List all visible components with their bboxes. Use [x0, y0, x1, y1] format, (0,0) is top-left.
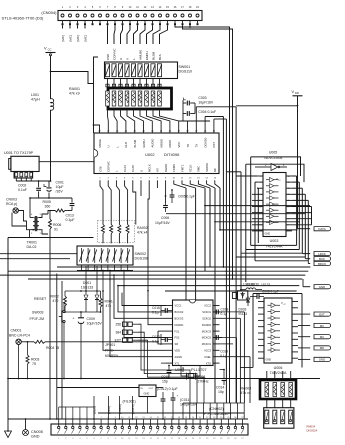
- svg-text:DIT4096: DIT4096: [164, 152, 180, 157]
- svg-text:10µF: 10µF: [56, 185, 64, 189]
- resistor array RA001 body: [106, 79, 172, 110]
- svg-text:C002: C002: [18, 184, 26, 188]
- svg-text:SR: SR: [175, 342, 179, 346]
- svg-text:FS1: FS1: [175, 329, 180, 333]
- svg-text:DGND1: DGND1: [175, 323, 185, 327]
- wire bottom rails: [8, 379, 320, 420]
- svg-text:COP/VC: COP/VC: [107, 161, 111, 172]
- svg-text:R005: R005: [43, 200, 51, 204]
- svg-text:D001: D001: [83, 281, 91, 285]
- svg-text:SCKO2: SCKO2: [202, 317, 211, 321]
- wire bundle bottom left feed: [59, 407, 94, 419]
- svg-text:C008 0.1µF: C008 0.1µF: [262, 289, 279, 293]
- svg-text:FRMS: FRMS: [172, 164, 176, 172]
- svg-text:CN005: CN005: [31, 430, 43, 434]
- transformer TR001 DA-02: [27, 214, 49, 249]
- diode D002 1S133 label: [232, 283, 270, 300]
- svg-text:FS2: FS2: [175, 336, 180, 340]
- svg-text:MGND: MGND: [159, 139, 163, 148]
- svg-text:384: 384: [115, 330, 121, 334]
- capacitor C005 0.1uF: [166, 190, 195, 203]
- capacitor C002 0.1uF: [18, 181, 41, 198]
- IC U003 74LV244A: [257, 173, 292, 237]
- svg-text:0.1uF: 0.1uF: [18, 188, 27, 192]
- resistor array RA003 47k x4: [241, 371, 297, 408]
- svg-text:STLS-40360-7T00 (D3): STLS-40360-7T00 (D3): [2, 15, 44, 20]
- svg-text:16: 16: [259, 219, 261, 221]
- svg-text:C016: C016: [152, 306, 160, 310]
- wire U002 pin28 left: [94, 125, 100, 133]
- svg-text:27MHz: 27MHz: [198, 379, 209, 383]
- svg-text:IS133: IS133: [239, 312, 248, 316]
- svg-text:R004 75: R004 75: [46, 346, 59, 350]
- svg-text:6: 6: [288, 212, 289, 214]
- svg-text:47µH: 47µH: [31, 98, 40, 102]
- svg-text:U006: U006: [274, 366, 283, 370]
- connector CN004 header: [58, 6, 202, 25]
- svg-text:TX: TX: [195, 144, 199, 148]
- IC U006 74LV244A: [258, 298, 298, 363]
- svg-text:/16V: /16V: [56, 190, 64, 194]
- svg-text:RA001: RA001: [69, 87, 80, 91]
- svg-text:C004 0.1uF: C004 0.1uF: [198, 110, 216, 114]
- svg-text:SMC: SMC: [197, 166, 201, 172]
- svg-text:TR: TR: [186, 144, 190, 148]
- svg-text:47k x9: 47k x9: [69, 92, 80, 96]
- capacitor C008 0.1uF: [250, 289, 279, 299]
- wires SW002 bottom: [77, 265, 133, 271]
- wire box around U006: [240, 294, 302, 368]
- component U001 TOTX179P optical transmitter: [4, 151, 39, 181]
- svg-text:VDD: VDD: [175, 349, 181, 353]
- svg-text:18: 18: [288, 176, 290, 178]
- svg-text:14: 14: [288, 188, 290, 190]
- svg-text:GND: GND: [31, 435, 40, 439]
- svg-text:10µF/16V: 10µF/16V: [87, 322, 103, 326]
- svg-text:BLSM: BLSM: [133, 139, 137, 147]
- svg-text:DD: DD: [295, 91, 299, 95]
- diode D001 1SS133: [81, 266, 99, 312]
- svg-text:GND: GND: [319, 285, 325, 289]
- wire left edge vertical: [7, 238, 9, 432]
- net flag LRCK: [302, 252, 330, 256]
- capacitor C013 0.1uF: [66, 198, 75, 222]
- wires U007 right extensions: [220, 312, 251, 403]
- resistor R001 47k: [97, 291, 113, 312]
- svg-text:AGND: AGND: [175, 355, 183, 359]
- resistor array RA002 47k x4: [98, 216, 148, 243]
- capacitor C010 0.1u: [152, 334, 173, 345]
- svg-text:[MC]: [MC]: [76, 35, 80, 41]
- svg-text:SDATA: SDATA: [205, 163, 209, 172]
- switch SW001 DGS110: [105, 62, 178, 79]
- svg-text:[MC]: [MC]: [84, 35, 88, 41]
- svg-text:74LV244A: 74LV244A: [270, 371, 287, 375]
- svg-text:SW002: SW002: [135, 252, 147, 256]
- wires U002 top right pins up: [179, 107, 237, 403]
- wire bus U002 bottom mid: [133, 180, 166, 290]
- svg-text:U: U: [139, 170, 143, 172]
- svg-text:0.1µ: 0.1µ: [221, 312, 228, 316]
- svg-text:LRCK: LRCK: [318, 252, 326, 256]
- svg-text:OUT: OUT: [149, 388, 154, 390]
- svg-text:V: V: [44, 46, 47, 51]
- svg-text:RST: RST: [212, 142, 216, 148]
- svg-text:DGND: DGND: [164, 164, 168, 172]
- svg-text:(CN004): (CN004): [41, 10, 57, 15]
- svg-text:DATA: DATA: [318, 227, 325, 231]
- svg-text:R001: R001: [105, 300, 113, 304]
- wires RA001 to U002 top pins: [108, 109, 179, 133]
- svg-text:12: 12: [288, 194, 290, 196]
- wire pin16 to rail2: [175, 25, 230, 403]
- wire harness U003 bottom wraps: [236, 243, 308, 261]
- svg-text:XTO: XTO: [206, 361, 211, 365]
- resistor R004 75: [34, 331, 166, 350]
- wire horizontals mid right: [166, 206, 310, 230]
- svg-text:10µF/16V: 10µF/16V: [155, 221, 171, 225]
- svg-text:GND: GND: [144, 392, 150, 396]
- svg-text:CC: CC: [48, 48, 52, 52]
- filter FIL001: [57, 385, 163, 413]
- svg-text:(C012) 0.1µF: (C012) 0.1µF: [157, 387, 178, 391]
- wire nested frame to U007: [114, 275, 166, 318]
- svg-text:CSEL: CSEL: [204, 355, 211, 359]
- svg-text:GND: GND: [266, 359, 272, 362]
- svg-text:MCKO2: MCKO2: [202, 336, 212, 340]
- svg-text:MCKO1: MCKO1: [202, 342, 212, 346]
- svg-text:C001: C001: [56, 181, 64, 185]
- svg-text:12: 12: [259, 206, 261, 208]
- wire rail x297 vertical: [297, 160, 299, 229]
- svg-text:DGS108: DGS108: [135, 257, 148, 261]
- svg-text:4: 4: [288, 219, 289, 221]
- svg-text:L001: L001: [31, 93, 39, 97]
- svg-text:C009: C009: [87, 317, 95, 321]
- svg-text:6: 6: [260, 188, 261, 190]
- svg-text:C010: C010: [152, 335, 160, 339]
- svg-text:47k: 47k: [106, 304, 112, 308]
- svg-text:15p: 15p: [162, 379, 168, 383]
- svg-text:U: U: [119, 58, 123, 60]
- svg-text:MCKO3: MCKO3: [202, 329, 212, 333]
- svg-text:RM034: RM034: [307, 425, 316, 429]
- svg-text:PLL1707: PLL1707: [191, 367, 207, 372]
- svg-text:2: 2: [288, 225, 289, 227]
- svg-text:C006: C006: [161, 216, 169, 220]
- inductor L001 47uH: [31, 93, 54, 181]
- power VDD rail: [236, 89, 302, 160]
- wire bundle to net tags M: [63, 25, 86, 28]
- svg-text:FMT1: FMT1: [180, 164, 184, 172]
- svg-text:SW003: SW003: [32, 310, 44, 314]
- svg-text:DA-02: DA-02: [27, 245, 37, 249]
- capacitor C006 10uF/16V label: [155, 203, 171, 225]
- svg-text:SCKO1: SCKO1: [202, 310, 211, 314]
- svg-text:COP/VC: COP/VC: [112, 48, 116, 60]
- svg-text:RESET: RESET: [34, 297, 47, 301]
- svg-text:V: V: [125, 58, 129, 60]
- capacitor C012: [157, 387, 178, 419]
- svg-text:U003: U003: [270, 239, 279, 243]
- capacitor C018 0.1u: [213, 308, 229, 317]
- svg-text:MC: MC: [320, 324, 325, 328]
- svg-text:MDAT: MDAT: [168, 139, 172, 147]
- svg-text:BCKO2: BCKO2: [175, 310, 184, 314]
- svg-text:47k x4: 47k x4: [137, 231, 147, 235]
- svg-text:C003: C003: [198, 96, 206, 100]
- wire pad rail U001: [16, 180, 50, 182]
- wire verticals to bottom: [44, 233, 63, 420]
- jack CN003 RCA: [6, 198, 33, 230]
- svg-text:EMPH: EMPH: [142, 139, 146, 147]
- svg-text:18: 18: [259, 225, 261, 227]
- svg-text:MC: MC: [320, 335, 325, 339]
- wire ground rail left: [8, 237, 94, 239]
- svg-text:MCLK: MCLK: [148, 164, 152, 172]
- capacitor C004 0.1uF: [183, 100, 216, 121]
- svg-text:8: 8: [288, 206, 289, 208]
- svg-text:[MC]: [MC]: [61, 35, 65, 41]
- wires JP001 down corners: [138, 324, 204, 403]
- svg-text:74LVC1G04: 74LVC1G04: [263, 156, 282, 160]
- svg-text:RA003: RA003: [241, 387, 252, 391]
- svg-text:VCC1: VCC1: [175, 304, 182, 308]
- svg-text:MODE: MODE: [98, 139, 102, 148]
- wire bus horizontal middle-right: [0, 267, 310, 291]
- resistor R006 91: [49, 211, 62, 238]
- wire flag stubs vertical: [302, 253, 308, 287]
- net flag BCK: [305, 257, 330, 261]
- svg-text:[MC]: [MC]: [69, 35, 73, 41]
- svg-text:20: 20: [259, 231, 261, 233]
- jack CN001 BNC: [9, 329, 34, 379]
- svg-text:DIG0024: DIG0024: [307, 428, 318, 432]
- svg-text:VS: VS: [156, 168, 160, 172]
- capacitor C003 10uF/16V: [183, 96, 214, 105]
- svg-text:D002: D002: [247, 283, 255, 287]
- svg-text:VCC3: VCC3: [204, 349, 211, 353]
- capacitor C019 0.1u: [213, 335, 228, 358]
- svg-text:0.1µF: 0.1µF: [66, 218, 75, 222]
- jumper JP001 pads: [115, 322, 138, 342]
- svg-text:RCA pj: RCA pj: [6, 202, 17, 206]
- svg-text:+: +: [73, 317, 75, 321]
- svg-text:XT1: XT1: [175, 361, 180, 365]
- svg-text:1SS133: 1SS133: [81, 285, 94, 289]
- wire Vcc branches: [51, 57, 99, 133]
- svg-text:FP1F-2M: FP1F-2M: [30, 317, 45, 321]
- crystal X001 27MHz: [181, 366, 209, 384]
- wire U001 to U002 TX: [39, 161, 94, 163]
- svg-text:60MEPt: 60MEPt: [105, 354, 118, 358]
- resistor R002 470: [51, 291, 87, 312]
- svg-text:14: 14: [259, 212, 261, 214]
- svg-text:U005: U005: [269, 151, 277, 155]
- svg-text:R002: R002: [51, 295, 59, 299]
- svg-text:U002: U002: [145, 152, 155, 157]
- svg-text:EMPH: EMPH: [145, 51, 149, 60]
- svg-text:CN001: CN001: [11, 329, 22, 333]
- svg-text:0.1µ: 0.1µ: [152, 311, 159, 315]
- svg-text:AUDIO: AUDIO: [151, 138, 155, 148]
- net flag GND: [303, 285, 331, 289]
- capacitor C016 0.1u: [152, 306, 173, 317]
- svg-text:DGND2: DGND2: [202, 323, 212, 327]
- net names above SW001: [106, 48, 162, 60]
- net labels above CN002 rotated: [93, 396, 136, 419]
- svg-text:BCKO3: BCKO3: [175, 317, 184, 321]
- svg-text:C014: C014: [216, 386, 224, 390]
- wire verticals lower mid: [103, 271, 148, 301]
- wire harness U003 left verticals: [236, 157, 258, 403]
- svg-text:VCC2: VCC2: [204, 304, 211, 308]
- svg-text:MD: MD: [320, 346, 325, 350]
- svg-text:VCC: VCC: [177, 142, 181, 148]
- resistor R005 360: [43, 200, 73, 214]
- wire bus verticals mid: [174, 180, 220, 403]
- svg-text:GND: GND: [265, 233, 271, 236]
- svg-text:BNC-LR-PC4: BNC-LR-PC4: [9, 333, 30, 337]
- svg-text:47k x4: 47k x4: [241, 391, 251, 395]
- switch SW002 DGS108: [77, 246, 133, 265]
- svg-text:EXT: EXT: [319, 312, 325, 316]
- wire harness U003 top wraps: [226, 157, 304, 182]
- wire harness U003 right verticals: [292, 160, 312, 261]
- wire horizontals into U007 left: [103, 279, 166, 363]
- svg-text:0.1µ: 0.1µ: [220, 354, 227, 358]
- svg-text:BDCK: BDCK: [318, 262, 326, 266]
- svg-text:CS8: CS8: [106, 54, 110, 60]
- svg-text:MF: MF: [213, 168, 217, 172]
- svg-text:10µF/16V: 10µF/16V: [198, 101, 214, 105]
- capacitor C009 10uF/16V: [65, 312, 102, 379]
- svg-text:TR001: TR001: [27, 241, 38, 245]
- ground symbol bottom left: [5, 431, 12, 438]
- svg-text:91: 91: [54, 228, 58, 232]
- svg-text:DGND0: DGND0: [203, 137, 207, 147]
- diode D003 1S133: [239, 296, 251, 316]
- svg-text:10: 10: [259, 200, 261, 202]
- svg-text:470: 470: [53, 299, 59, 303]
- connector CN006 4pin: [264, 408, 294, 429]
- svg-text:360: 360: [45, 205, 51, 209]
- svg-text:C019: C019: [220, 350, 228, 354]
- svg-text:15p: 15p: [218, 390, 224, 394]
- IC U002 DIT4096: [94, 131, 219, 180]
- svg-text:AMU90: AMU90: [138, 50, 142, 60]
- svg-text:CLK5: CLK5: [131, 165, 135, 172]
- net flag BDCK: [308, 261, 330, 265]
- wire pin17 to right rail: [183, 25, 233, 279]
- svg-text:C013: C013: [66, 214, 74, 218]
- svg-text:D003: D003: [239, 308, 247, 312]
- svg-text:0: 0: [288, 231, 289, 233]
- svg-text:U001 TO TX179P: U001 TO TX179P: [4, 151, 34, 155]
- svg-text:(FIL001): (FIL001): [123, 400, 136, 404]
- jack CN005 GND: [23, 419, 43, 439]
- svg-text:C018: C018: [221, 308, 229, 312]
- svg-text:2: 2: [260, 176, 261, 178]
- svg-text:BCK: BCK: [319, 257, 325, 261]
- svg-text:CLK1: CLK1: [123, 165, 127, 172]
- capacitor C011 100uF/16V: [171, 392, 198, 419]
- capacitor C001 10uF/16V: [30, 181, 72, 218]
- power Vcc left: [44, 46, 56, 100]
- svg-text:[LRCK]: [LRCK]: [118, 404, 122, 414]
- svg-text:RA002: RA002: [137, 226, 148, 230]
- svg-text:CS8: CS8: [98, 166, 102, 172]
- wire bundle bottom right feed: [183, 403, 244, 419]
- svg-text:4: 4: [260, 182, 261, 184]
- svg-text:RLB: RLB: [124, 142, 128, 148]
- svg-text:CN003: CN003: [6, 198, 17, 202]
- capacitor C015 15p: [161, 366, 171, 384]
- svg-text:[DATA]: [DATA]: [131, 404, 135, 414]
- wire bus horizontal middle-left: [0, 254, 77, 259]
- svg-text:U: U: [107, 145, 111, 147]
- net flags EXT MC MD GND: [298, 312, 331, 316]
- svg-text:(C011): (C011): [180, 398, 190, 402]
- svg-text:R003: R003: [31, 357, 39, 361]
- svg-text:BLSM: BLSM: [151, 51, 155, 60]
- svg-text:+: +: [177, 394, 179, 398]
- svg-text:256: 256: [115, 322, 121, 326]
- svg-text:1S133: 1S133: [261, 283, 270, 287]
- svg-text:BLS: BLS: [158, 54, 162, 60]
- net flag DATA: [298, 227, 331, 231]
- svg-text:10: 10: [288, 200, 290, 202]
- wire pin18 short: [189, 25, 191, 28]
- wire bus U002 bottom left to RA002: [100, 180, 128, 216]
- resistor R003 75: [26, 342, 39, 379]
- svg-text:16: 16: [288, 182, 290, 184]
- svg-text:75: 75: [32, 362, 36, 366]
- capacitor C014 15p: [216, 370, 226, 395]
- svg-text:DGS110: DGS110: [179, 70, 193, 74]
- svg-text:SCLK: SCLK: [189, 165, 193, 172]
- wire U007 bottom pins: [170, 367, 199, 372]
- IC U007 PLL1707: [166, 300, 220, 366]
- svg-text:[BCK]: [BCK]: [107, 406, 111, 414]
- IC U005 74LVC1G04: [255, 151, 287, 171]
- svg-text:R006: R006: [53, 223, 61, 227]
- svg-text:GND: GND: [319, 358, 325, 362]
- connector CN002 body: [51, 417, 248, 440]
- wire harness U003 pin stubs left: [236, 176, 258, 231]
- switch SW003 RESET: [30, 297, 66, 379]
- wire bundle connector to SW001: [108, 25, 168, 44]
- inductor L002: [240, 282, 262, 289]
- svg-text:8: 8: [260, 194, 261, 196]
- svg-text:SW001: SW001: [179, 65, 191, 69]
- net tags MD vertical: [61, 35, 88, 41]
